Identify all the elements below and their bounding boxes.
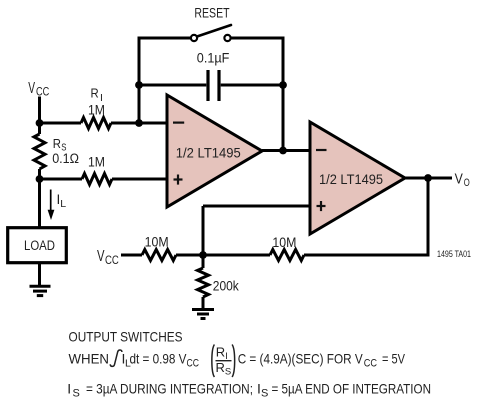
node cap-left junction (135, 81, 143, 89)
load box (8, 228, 67, 263)
svg-text:V: V (28, 80, 35, 97)
node U2 output junction (424, 174, 432, 182)
svg-text:I: I (67, 381, 71, 397)
ground below 200k (192, 310, 214, 319)
resistor 10M right (270, 250, 304, 261)
svg-text:0.1Ω: 0.1Ω (52, 151, 79, 166)
wire U2 plus horizontal (203, 205, 310, 208)
svg-text:S: S (73, 388, 80, 400)
resistor RS 0.1ohm (34, 134, 45, 169)
svg-text:= 3µA DURING INTEGRATION;: = 3µA DURING INTEGRATION; (86, 381, 253, 397)
wire plus row right (112, 178, 167, 181)
wire feedback vertical (427, 178, 430, 257)
resistor 200k (198, 268, 209, 297)
note line 2 equation (69, 345, 406, 378)
op-amp U1 1/2 LT1495 (167, 95, 262, 207)
ground below load (30, 286, 51, 295)
resistor 10M left (142, 250, 176, 261)
wire right vertical (282, 37, 285, 152)
capacitor C1 0.1uF (208, 70, 219, 101)
fraction bar (216, 360, 232, 362)
switch contact left (191, 35, 197, 41)
node Vcc-RI junction (36, 119, 44, 127)
fraction open paren (212, 345, 215, 378)
svg-text:LOAD: LOAD (24, 238, 55, 253)
resistor 1M lower (82, 174, 112, 185)
wire minus row left (40, 122, 82, 125)
node bottom junction (199, 251, 207, 259)
svg-text:1M: 1M (88, 102, 105, 118)
svg-text:1/2 LT1495: 1/2 LT1495 (319, 171, 383, 187)
resistor RI 1M (81, 118, 111, 129)
note line 3 (67, 381, 431, 400)
wire minus row right (111, 122, 167, 125)
wire cap row right (221, 84, 283, 87)
wire bottom row right (304, 254, 430, 257)
svg-text:V: V (97, 248, 105, 265)
wire 200k top stub (202, 255, 205, 268)
wire left vertical (138, 37, 141, 124)
svg-text:RESET: RESET (194, 6, 229, 21)
integral sign (110, 350, 122, 366)
svg-text:1M: 1M (88, 153, 105, 169)
svg-text:CC: CC (187, 358, 200, 370)
node U1 output junction (279, 147, 287, 155)
op-amp U2 1/2 LT1495 (310, 122, 405, 234)
wire switch row left (139, 37, 191, 40)
wire load to ground (38, 264, 41, 287)
svg-text:WHEN: WHEN (69, 351, 110, 367)
node minus-row mid junction (135, 119, 143, 127)
svg-text:0.1µF: 0.1µF (197, 51, 230, 66)
svg-text:dt = 0.98 V: dt = 0.98 V (130, 351, 188, 367)
svg-text:1495 TA01: 1495 TA01 (437, 249, 471, 259)
svg-text:R: R (91, 85, 99, 100)
wire Vcc stem (38, 97, 41, 124)
svg-text:1/2 LT1495: 1/2 LT1495 (176, 145, 241, 161)
svg-text:S: S (261, 388, 268, 400)
wire RS bottom stub (38, 169, 41, 179)
svg-text:OUTPUT SWITCHES: OUTPUT SWITCHES (69, 329, 183, 345)
switch contact right (224, 35, 230, 41)
wire U2 plus vertical (202, 206, 205, 255)
switch RESET blade (197, 25, 231, 37)
current arrow IL (48, 190, 55, 221)
svg-text:L: L (60, 198, 66, 210)
node cap-right junction (279, 81, 287, 89)
svg-text:CC: CC (105, 253, 119, 267)
wire load stem (38, 179, 41, 227)
svg-text:C = (4.9A)(SEC) FOR V: C = (4.9A)(SEC) FOR V (238, 351, 364, 367)
svg-text:V: V (455, 171, 464, 187)
wire bottom row mid (176, 254, 270, 257)
wire RS top stub (38, 123, 41, 134)
wire 200k bottom stub (202, 297, 205, 309)
wire cap row left (139, 84, 206, 87)
svg-text:200k: 200k (213, 278, 240, 294)
U1 plus pin symbol (174, 175, 183, 185)
wire switch row right (231, 37, 285, 40)
wire bottom row Vcc stub (121, 254, 142, 257)
fraction close paren (232, 345, 235, 378)
svg-text:R: R (53, 136, 61, 151)
svg-text:= 5µA END OF INTEGRATION: = 5µA END OF INTEGRATION (272, 381, 432, 397)
wire U2 output (405, 177, 452, 180)
U1 minus pin symbol (173, 121, 184, 123)
svg-text:O: O (464, 177, 470, 189)
wire U1 output row (262, 149, 310, 152)
wire plus row left (40, 178, 83, 181)
U2 minus pin symbol (316, 149, 327, 151)
svg-text:= 5V: = 5V (382, 351, 406, 367)
svg-text:CC: CC (364, 358, 377, 370)
node RS-1M junction (36, 175, 44, 183)
U2 plus pin symbol (317, 201, 326, 211)
